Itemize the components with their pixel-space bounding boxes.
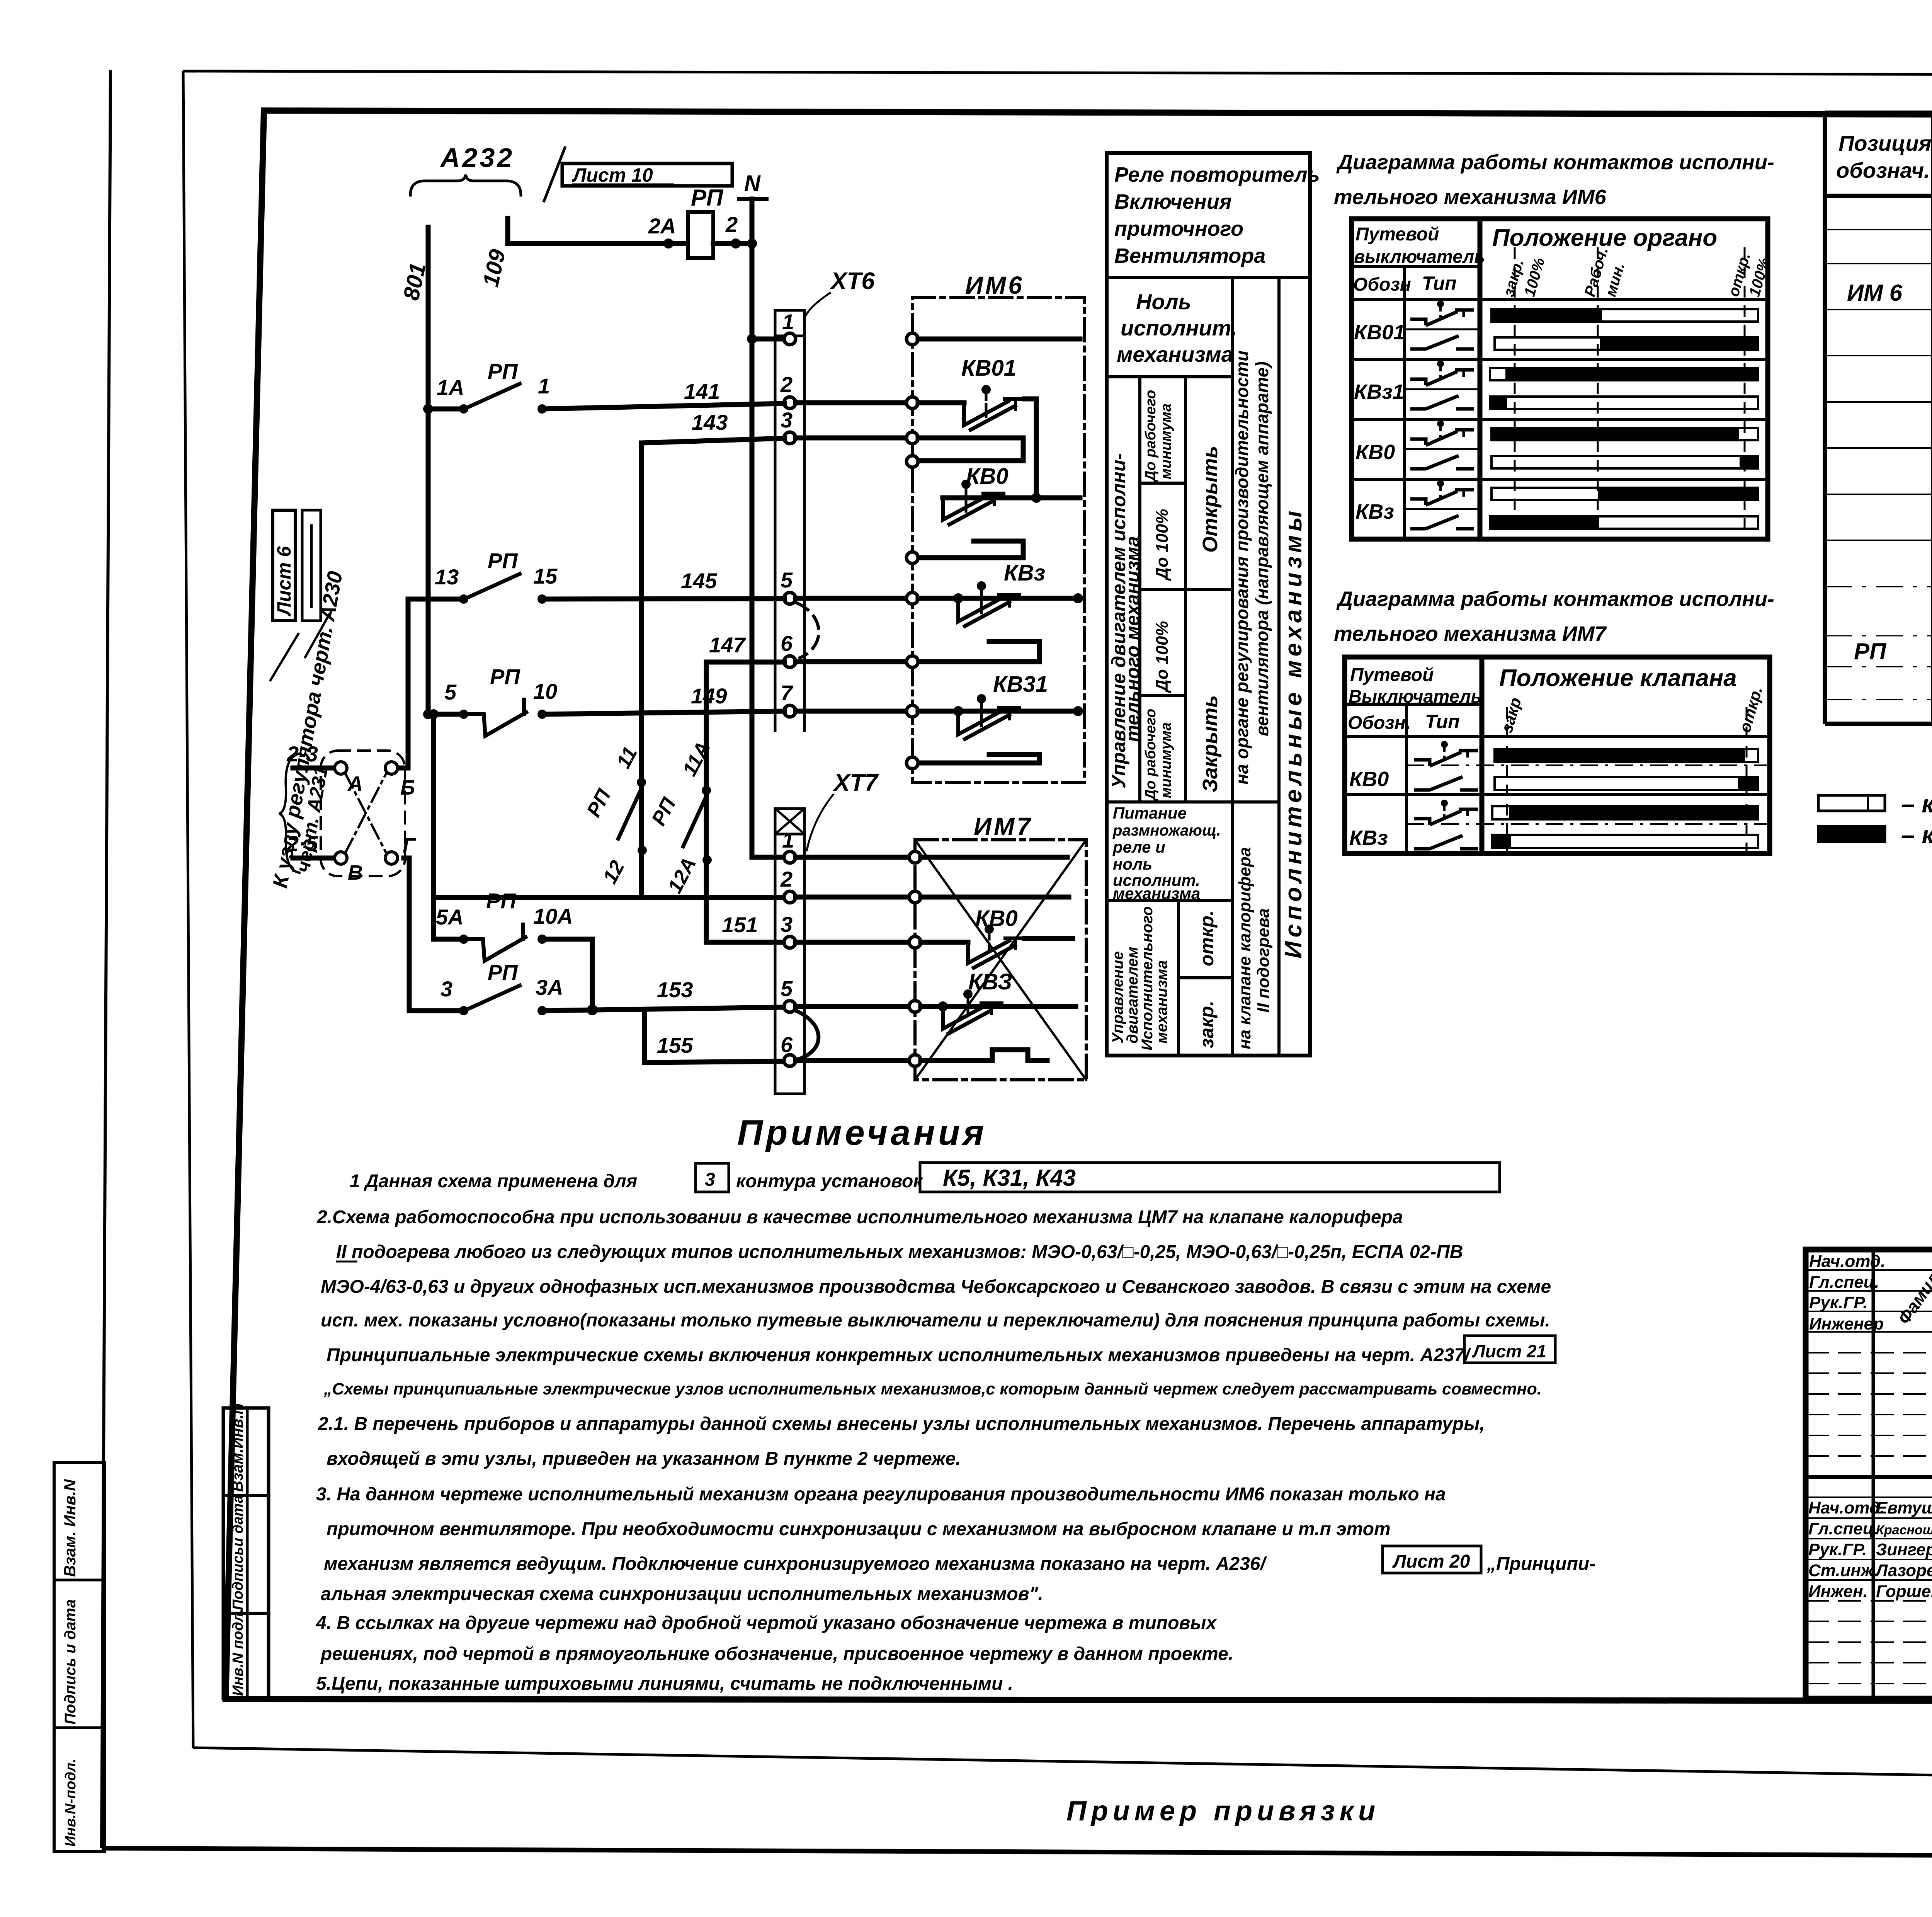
- switch icon КВО1-a: [1410, 300, 1474, 325]
- wire 5A branch row: [434, 937, 464, 942]
- svg-text:РП: РП: [647, 793, 680, 829]
- svg-text:ХТ7: ХТ7: [833, 770, 879, 796]
- junction КВ0 input: [1031, 493, 1041, 503]
- svg-text:Позиция,: Позиция,: [1838, 131, 1932, 155]
- riser junction: [429, 709, 439, 719]
- legend closed contact bar: [1818, 826, 1885, 842]
- sub line 1800: [1140, 694, 1185, 697]
- wire to node A: [293, 766, 334, 771]
- ИМ6 pin row6: [906, 656, 918, 667]
- svg-text:Гл.спец.: Гл.спец.: [1808, 1519, 1878, 1538]
- svg-text:5: 5: [444, 680, 457, 704]
- row line 718: [1107, 276, 1310, 279]
- wire relay row: [508, 241, 688, 246]
- contact РП 13-15 blade: [467, 574, 520, 598]
- svg-text:Инв.N-подл.: Инв.N-подл.: [63, 1759, 79, 1847]
- bar КВО-a: [1492, 428, 1758, 440]
- XT6 terminal 6: [784, 656, 796, 667]
- contact РП 11A-12A node 11A: [702, 786, 711, 795]
- svg-text:В: В: [348, 861, 363, 884]
- ИМ7 cross line 1: [915, 840, 1086, 1080]
- riser 149 to 5A: [431, 714, 436, 939]
- diagram ИМ7 frame: [1345, 657, 1770, 853]
- ИМ6 pin row2: [906, 397, 918, 409]
- svg-text:4. В ссылках на другие чертеж: 4. В ссылках на другие чертежи над дробн…: [316, 1613, 1217, 1633]
- limit switch КВ0: [943, 496, 987, 520]
- note 1 box К5: [920, 1163, 1500, 1192]
- wire row1 to XT6: [752, 337, 784, 342]
- wire XT6-7 to ИМ6: [796, 709, 906, 714]
- SEC:LEGEND-END: [316, 1113, 1595, 1694]
- svg-text:До рабочего: До рабочего: [1143, 390, 1159, 482]
- svg-text:КВз: КВз: [1004, 560, 1045, 586]
- wire КВ0 row: [943, 495, 1080, 501]
- flag slashes: [270, 634, 298, 680]
- junction row5: [938, 1001, 948, 1011]
- col line 3310: [1277, 278, 1281, 1056]
- svg-text:До рабочего: До рабочего: [1143, 709, 1159, 801]
- XT7 terminal 6: [784, 1055, 796, 1066]
- svg-text:– контакт замкнут: – контакт замкнут: [1901, 821, 1932, 849]
- switch icon КВО-b (ИМ7): [1414, 777, 1478, 790]
- row line 2330: [1107, 899, 1233, 902]
- contact РП 3-3A blade: [467, 986, 520, 1010]
- svg-text:КВз: КВз: [1349, 826, 1388, 850]
- svg-text:Инв.N подл.: Инв.N подл.: [230, 1609, 246, 1696]
- sub dividers (ИМ7): [1406, 764, 1770, 766]
- wire 10A down to 153: [542, 939, 592, 1010]
- svg-text:3А: 3А: [536, 975, 563, 999]
- node 2A: [663, 238, 673, 249]
- switch icon КВз-b (ИМ7): [1414, 836, 1478, 849]
- node Г: [385, 852, 398, 864]
- ИМ7 pin 2: [909, 891, 921, 903]
- switch icon КВз-b: [1410, 516, 1474, 529]
- ИМ6 pin stub1: [906, 456, 918, 467]
- flag box лист 6: [273, 510, 295, 621]
- sub dividers Тип: [1405, 329, 1480, 330]
- svg-text:РП: РП: [488, 359, 518, 383]
- svg-text:ИМ 6: ИМ 6: [1847, 280, 1903, 306]
- jumper XT7 5-6: [797, 1011, 818, 1059]
- svg-text:РП: РП: [1854, 638, 1887, 664]
- ИМ6 pin row5: [906, 592, 918, 604]
- svg-text:контура установок: контура установок: [736, 1171, 923, 1192]
- svg-text:N: N: [744, 171, 761, 196]
- svg-text:тельного механизма: тельного механизма: [1122, 536, 1143, 742]
- svg-text:Горшенин: Горшенин: [1876, 1582, 1932, 1601]
- svg-text:РП: РП: [488, 548, 518, 573]
- XT7 leader: [807, 795, 833, 850]
- svg-text:закр.: закр.: [1196, 1001, 1218, 1048]
- svg-text:10А: 10А: [533, 904, 573, 928]
- svg-text:Путевой: Путевой: [1350, 665, 1434, 685]
- svg-text:Фамилии: Фамилии: [1894, 1250, 1932, 1328]
- contact РП 13-15 node 13: [459, 594, 468, 604]
- contact РП 1A-1 node 1A: [459, 404, 468, 414]
- svg-text:Нач.отд.: Нач.отд.: [1808, 1498, 1884, 1517]
- svg-text:механизм является ведущим. Под: механизм является ведущим. Подключение с…: [324, 1554, 1267, 1574]
- bar КВз-b: [1490, 516, 1758, 529]
- svg-text:7: 7: [781, 681, 794, 705]
- switch icon КВз1-b: [1410, 396, 1474, 409]
- svg-text:Тип: Тип: [1425, 711, 1460, 732]
- svg-text:Диаграмма работы контактов исп: Диаграмма работы контактов исполни-: [1336, 587, 1774, 611]
- ИМ7 cross line 2: [915, 840, 1086, 1080]
- svg-text:КВ0: КВ0: [966, 464, 1009, 489]
- SEC:DIAG6-END: [1334, 587, 1774, 853]
- col line Тип: [1403, 267, 1406, 539]
- svg-text:Положение органо: Положение органо: [1492, 225, 1717, 251]
- svg-text:Лист 21: Лист 21: [1472, 1341, 1546, 1361]
- svg-text:механизма: механизма: [1153, 960, 1170, 1044]
- wire row7 inside: [918, 709, 1080, 714]
- svg-text:2.Схема работоспособна при исп: 2.Схема работоспособна при использовании…: [316, 1207, 1403, 1227]
- wire XT6-5 to ИМ6: [796, 596, 906, 601]
- svg-text:входящей в эти узлы, приве: входящей в эти узлы, приведен на указанн…: [327, 1449, 961, 1469]
- svg-text:5А: 5А: [436, 905, 464, 929]
- bar КВз1-a: [1490, 368, 1758, 380]
- node 3A: [537, 1006, 547, 1015]
- svg-text:Взам. Инв.N: Взам. Инв.N: [61, 1479, 79, 1577]
- SEC:DIAG7-END: [1825, 113, 1932, 724]
- row line 2075: [1107, 800, 1279, 804]
- svg-text:Ст.инж.: Ст.инж.: [1808, 1561, 1878, 1580]
- title block frame: [1806, 1250, 1932, 1699]
- contact РП 11A-12A blade: [683, 796, 706, 846]
- svg-text:тельного механизма ИМ6: тельного механизма ИМ6: [1334, 186, 1607, 209]
- wire to node B: [293, 856, 334, 861]
- svg-text:альная электрическая схема син: альная электрическая схема синхронизации…: [321, 1584, 1043, 1604]
- XT6 terminal 7: [784, 705, 796, 717]
- sub line 1250: [1140, 482, 1185, 485]
- outer stamp strip: [54, 1462, 104, 1851]
- col line должность: [1872, 1250, 1875, 1699]
- wire XT7-2 row: [434, 895, 784, 900]
- svg-text:КВ0: КВ0: [1349, 768, 1389, 791]
- svg-text:ХТ6: ХТ6: [830, 268, 875, 295]
- svg-text:5: 5: [781, 976, 793, 1001]
- svg-text:Инженер: Инженер: [1809, 1314, 1884, 1333]
- svg-text:ноль: ноль: [1113, 855, 1152, 873]
- XT6 terminal 1: [784, 333, 796, 345]
- left rows: [1806, 1269, 1932, 1271]
- svg-text:КВ01: КВ01: [1354, 321, 1405, 344]
- svg-text:12А: 12А: [663, 854, 701, 897]
- bar КВз1-b: [1490, 397, 1758, 409]
- parts table bottom: [1825, 722, 1932, 726]
- scale dashed закр (ИМ7): [1506, 707, 1508, 853]
- junction 155 branch: [642, 1010, 647, 1062]
- net N bar: [739, 197, 767, 201]
- junction row5 right: [1073, 593, 1083, 603]
- node Г riser: [404, 858, 464, 1011]
- svg-text:Включения: Включения: [1114, 190, 1232, 213]
- wire row1 inside: [918, 337, 1080, 342]
- mid line 1525: [1140, 588, 1233, 591]
- col line bars (ИМ7): [1480, 657, 1485, 853]
- svg-text:КВз1: КВз1: [1354, 380, 1404, 403]
- switch icon КВО-a: [1410, 420, 1474, 445]
- scale dashed line рабоч: [1597, 247, 1599, 539]
- switch icon КВз-a (ИМ7): [1414, 800, 1478, 825]
- crossover dash-dot A-Г: [345, 774, 386, 853]
- SEC:FRAMES-END: [269, 143, 879, 1094]
- svg-text:Обозн.: Обозн.: [1348, 713, 1411, 733]
- SEC:CIRCUIT-END: [796, 271, 1086, 1080]
- svg-text:Примечания: Примечания: [737, 1113, 987, 1153]
- svg-text:Лист 6: Лист 6: [273, 546, 295, 616]
- svg-text:решениях, под чертой в прямоуг: решениях, под чертой в прямоугольнике об…: [320, 1644, 1233, 1664]
- svg-text:II подогрева любого из следующ: II подогрева любого из следующих типов и…: [336, 1242, 1463, 1262]
- node 15: [537, 594, 547, 604]
- svg-text:II подогрева: II подогрева: [1254, 908, 1273, 1013]
- wire XT7-6 to ИМ7: [796, 1058, 909, 1063]
- svg-text:Рук.ГР.: Рук.ГР.: [1808, 1540, 1867, 1559]
- svg-text:на органе регулирования произв: на органе регулирования производительнос…: [1232, 351, 1252, 785]
- svg-text:До 100%: До 100%: [1153, 621, 1172, 693]
- limit switch КВз: [958, 598, 1003, 621]
- XT6 leader: [806, 293, 830, 315]
- node 10A: [537, 935, 547, 944]
- wire XT7-3 to ИМ7: [796, 940, 909, 945]
- junction 5A branch: [587, 1004, 598, 1015]
- wire 153: [542, 1007, 784, 1011]
- svg-text:2.1. В перечень приборов и апп: 2.1. В перечень приборов и аппаратуры да…: [318, 1414, 1485, 1434]
- svg-text:153: 153: [657, 977, 693, 1002]
- svg-text:Вентилятора: Вентилятора: [1114, 244, 1265, 267]
- node 1: [537, 404, 547, 414]
- flag slash лист 10: [544, 148, 565, 201]
- bar КВО-a (ИМ7): [1495, 749, 1758, 762]
- junction N coil: [747, 238, 757, 249]
- limit switch КВО1: [918, 400, 964, 405]
- svg-text:МЭО-4/63-0,63 и других однофаз: МЭО-4/63-0,63 и других однофазных исп.ме…: [321, 1277, 1551, 1297]
- svg-text:– контакт разомкнут: – контакт разомкнут: [1901, 790, 1932, 818]
- wire XT7-5 to ИМ7: [796, 1004, 909, 1009]
- svg-text:2: 2: [780, 867, 793, 891]
- XT7 terminal 3: [784, 936, 796, 948]
- relay coil РП: [688, 212, 713, 258]
- scale dashed откр (ИМ7): [1746, 707, 1748, 853]
- XT7 terminal 5: [784, 1001, 796, 1012]
- contact РП 5A-10A node 5A: [459, 935, 468, 944]
- svg-text:Реле повторитель: Реле повторитель: [1114, 163, 1320, 186]
- node 12A: [702, 855, 712, 865]
- svg-text:механизма: механизма: [1117, 342, 1233, 366]
- wire XT7-1 to ИМ7: [796, 855, 909, 860]
- svg-text:Евтушенко: Евтушенко: [1876, 1498, 1932, 1517]
- svg-text:КВ01: КВ01: [961, 356, 1016, 381]
- scale dashed line откр: [1744, 247, 1746, 539]
- wire КВО1 to КВ0: [1025, 399, 1036, 498]
- svg-text:3: 3: [781, 408, 793, 432]
- svg-text:5.Цепи, показанные штриховыми: 5.Цепи, показанные штриховыми линиями, с…: [316, 1674, 1013, 1694]
- ИМ7 pin 6: [909, 1055, 921, 1066]
- sub col 3068: [1184, 377, 1187, 802]
- svg-text:Лазоренко: Лазоренко: [1875, 1561, 1932, 1580]
- svg-text:151: 151: [722, 913, 758, 937]
- XT6 terminal 2: [784, 397, 796, 409]
- node Б riser: [398, 599, 464, 768]
- junction row5 left: [953, 593, 963, 603]
- wire 141 row: [423, 404, 433, 414]
- col line bars: [1478, 219, 1483, 539]
- svg-text:11: 11: [612, 743, 642, 772]
- sheet outer frame bottom edge: [193, 1748, 1932, 1778]
- bar КВО-b (ИМ7): [1495, 777, 1758, 790]
- XT7 spare cell: [775, 809, 804, 834]
- svg-text:1: 1: [782, 828, 794, 852]
- svg-text:15: 15: [533, 564, 558, 588]
- node Б: [385, 762, 398, 774]
- svg-text:Лист 20: Лист 20: [1392, 1551, 1470, 1572]
- svg-text:13: 13: [435, 565, 459, 589]
- bar КВО1-a closed: [1492, 309, 1758, 322]
- ИМ7 pin 1: [909, 851, 921, 863]
- contact РП 11-12 blade: [618, 788, 641, 839]
- sub col 3050 низ: [1177, 901, 1180, 1056]
- svg-text:10: 10: [533, 679, 557, 703]
- svg-text:Зингерман: Зингерман: [1876, 1540, 1932, 1559]
- wire ИМ7 row2: [921, 895, 1069, 900]
- svg-text:6: 6: [781, 1032, 793, 1057]
- svg-text:исполнит.: исполнит.: [1121, 316, 1237, 340]
- bar КВз-a (ИМ7): [1492, 806, 1758, 819]
- bracket row3: [918, 438, 1023, 461]
- svg-text:Инжен.: Инжен.: [1808, 1582, 1868, 1601]
- svg-text:3: 3: [781, 912, 793, 936]
- wire ИМ7 row1: [921, 855, 1067, 860]
- svg-text:размножающ.: размножающ.: [1112, 822, 1221, 839]
- limit switch КВз1: [958, 710, 1003, 734]
- function table frame: [1107, 153, 1310, 1056]
- diagram ИМ6 frame: [1352, 219, 1768, 539]
- svg-text:2А: 2А: [648, 214, 676, 238]
- svg-text:Красношевский: Красношевский: [1876, 1523, 1932, 1537]
- parts table left edge: [1823, 113, 1827, 724]
- svg-text:Открыть: Открыть: [1199, 446, 1222, 553]
- wire 151 to XT7-3: [706, 940, 784, 945]
- row line 975: [1107, 375, 1233, 378]
- svg-text:КВз: КВз: [1355, 500, 1394, 523]
- contact РП 1A-1 blade: [467, 384, 520, 408]
- svg-text:вентилятора (направляющем аппа: вентилятора (направляющем аппарате): [1252, 361, 1272, 736]
- svg-text:ИМ7: ИМ7: [974, 812, 1033, 840]
- row lines: [1825, 229, 1932, 230]
- svg-text:механизма: механизма: [1113, 884, 1200, 902]
- svg-text:на клапане калорифера: на клапане калорифера: [1235, 847, 1254, 1049]
- brace left: [279, 754, 299, 873]
- svg-text:Лист 10: Лист 10: [572, 164, 653, 186]
- header bottom line: [1825, 194, 1932, 198]
- ИМ6 pin row1: [906, 333, 918, 345]
- wire 145 to XT6-5: [542, 599, 784, 599]
- crossover dash-dot В-Б: [345, 774, 386, 853]
- switch icon КВз1-a: [1410, 360, 1474, 385]
- svg-text:обознач.: обознач.: [1836, 158, 1930, 182]
- switch icon КВз-a: [1410, 480, 1474, 505]
- svg-text:откр.: откр.: [1196, 910, 1218, 966]
- wire XT6-2 to ИМ6: [796, 400, 906, 405]
- XT6 terminal 5: [784, 592, 796, 604]
- svg-text:1: 1: [538, 374, 550, 398]
- scale dashed line закр: [1514, 247, 1516, 539]
- svg-text:1 Данная схема применена для: 1 Данная схема применена для: [350, 1171, 637, 1192]
- col line 3190: [1231, 278, 1234, 1056]
- svg-text:минимума: минимума: [1158, 403, 1174, 479]
- col Позиция/Наименование: [1931, 113, 1932, 724]
- wire 143 to XT6-3: [641, 438, 784, 443]
- svg-text:Принципиальные электрические с: Принципиальные электрические схемы включ…: [327, 1345, 1471, 1365]
- bracket КВ0: [919, 541, 1023, 558]
- sheet outer frame left edge: [183, 71, 193, 1748]
- svg-text:РП: РП: [490, 664, 520, 689]
- svg-text:109: 109: [478, 247, 510, 289]
- parts table top: [1825, 111, 1932, 115]
- terminal strip XT7: [774, 809, 777, 1094]
- svg-text:КВЗ: КВЗ: [968, 969, 1012, 994]
- wire row5 inside: [918, 596, 1080, 601]
- svg-text:До 100%: До 100%: [1153, 509, 1172, 581]
- wire ИМ7 row3: [921, 940, 968, 945]
- crossover block dashed outline: [321, 751, 405, 876]
- bar КВз-b (ИМ7): [1492, 835, 1758, 848]
- svg-text:приточного: приточного: [1114, 217, 1243, 240]
- inner stamp strip: [223, 1408, 269, 1699]
- svg-text:К5, К31, К43: К5, К31, К43: [943, 1165, 1076, 1191]
- row line КВО/КВз (ИМ7): [1345, 793, 1770, 796]
- svg-text:А232: А232: [440, 143, 514, 173]
- svg-text:Пример привязки: Пример привязки: [1066, 1796, 1380, 1827]
- svg-text:Диаграмма работы контактов исп: Диаграмма работы контактов исполни-: [1336, 151, 1774, 174]
- svg-text:Взам.Инв.N: Взам.Инв.N: [229, 1403, 246, 1492]
- svg-text:исп. мех. показаны условно(пок: исп. мех. показаны условно(показаны толь…: [321, 1310, 1550, 1331]
- svg-text:Рук.ГР.: Рук.ГР.: [1809, 1293, 1867, 1312]
- XT6 terminal 3: [784, 432, 796, 444]
- svg-text:приточном вентиляторе. При нео: приточном вентиляторе. При необходимости…: [327, 1519, 1391, 1539]
- junction N row1: [747, 334, 757, 344]
- svg-text:Подписьи дата: Подписьи дата: [230, 1495, 246, 1610]
- svg-text:2: 2: [780, 372, 793, 397]
- note 2 box Лист 21: [1464, 1336, 1555, 1363]
- svg-text:РП: РП: [691, 185, 724, 211]
- node 10: [537, 710, 547, 719]
- bar КВО-b: [1492, 456, 1758, 468]
- wire XT6-6 to ИМ6: [796, 659, 906, 664]
- svg-text:2: 2: [725, 212, 738, 237]
- svg-text:149: 149: [691, 684, 727, 708]
- wire 149 to XT6-7: [542, 711, 784, 714]
- node В: [335, 852, 347, 864]
- brace under A232: [410, 175, 521, 195]
- terminal strip XT6: [774, 310, 777, 730]
- svg-text:Нач.отд.: Нач.отд.: [1809, 1252, 1885, 1271]
- flag box лист 10: [562, 163, 732, 186]
- contact РП 11-12 node 11: [637, 778, 646, 787]
- jumper XT6 5-6 dashed: [797, 603, 819, 658]
- bracket КВз: [919, 642, 1039, 662]
- svg-text:141: 141: [684, 379, 720, 403]
- actuator box ИМ7: [915, 840, 1086, 1080]
- bracket КВз1: [919, 754, 1039, 763]
- svg-text:откр.: откр.: [1735, 684, 1766, 735]
- switch icon КВО-a (ИМ7): [1414, 741, 1478, 766]
- limit switch КВ0 (ИМ7): [968, 941, 1009, 963]
- svg-text:3: 3: [440, 977, 452, 1001]
- bar КВО1-b open: [1495, 337, 1758, 350]
- svg-text:Питание: Питание: [1113, 804, 1187, 822]
